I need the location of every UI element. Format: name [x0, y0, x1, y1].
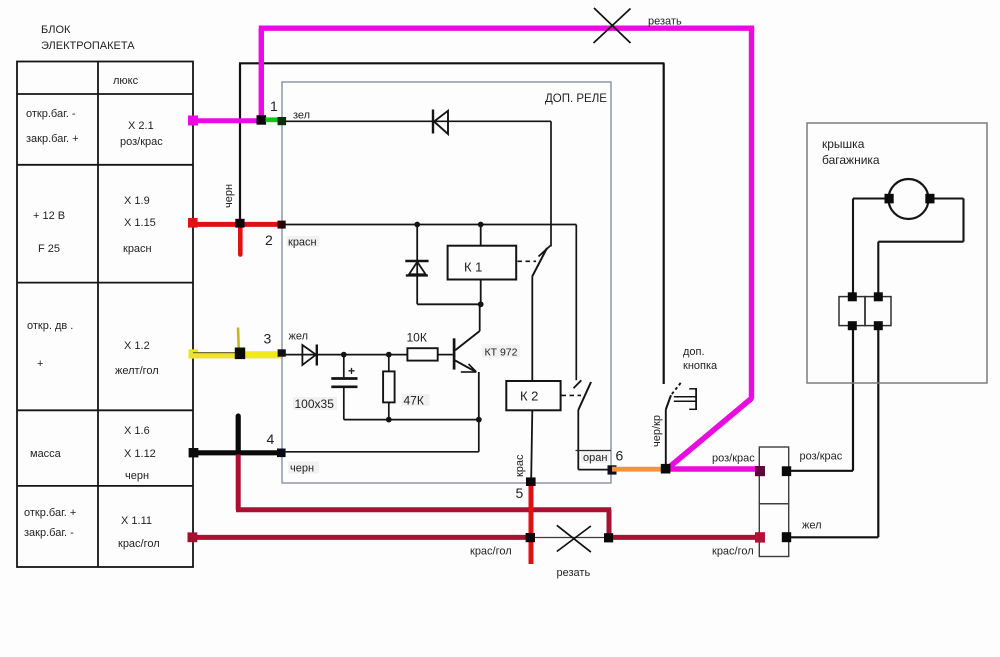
- wire роз/крас magenta diagonal and run to connector: [666, 399, 760, 469]
- label жел right: [802, 520, 822, 532]
- label роз/крас right: [800, 451, 843, 463]
- доп. кнопка switch: [666, 383, 696, 465]
- label крас/гол right: [712, 546, 754, 558]
- svg-text:крас/гол: крас/гол: [470, 546, 512, 558]
- svg-text:+: +: [37, 358, 43, 370]
- svg-text:роз/крас: роз/крас: [712, 453, 755, 465]
- wire крас/гол dark red to connector: [613, 535, 760, 540]
- svg-text:ЭЛЕКТРОПАКЕТА: ЭЛЕКТРОПАКЕТА: [41, 40, 135, 52]
- wire крас/гол dark red from блок row5: [188, 532, 528, 542]
- table row 1 откр.баг/закр.баг X 2.1 роз/крас: [26, 108, 163, 148]
- svg-text:4: 4: [267, 431, 275, 447]
- wire роз/крас magenta from блок row1: [188, 116, 262, 126]
- label 100х35: [293, 397, 337, 411]
- svg-text:роз/крас: роз/крас: [800, 451, 843, 463]
- table header cell люкс: [113, 75, 139, 87]
- wire black connector to крышка (lower): [791, 330, 878, 537]
- svg-text:6: 6: [616, 448, 624, 464]
- wire желт/гол yellow from блок row3: [189, 328, 282, 359]
- wire красн red from блок row2: [188, 218, 282, 255]
- node 1 square at box edge: [270, 98, 310, 125]
- svg-text:100х35: 100х35: [295, 397, 335, 411]
- table row 2 +12В F25 красн: [33, 195, 156, 255]
- resistor R1 10К: [407, 331, 453, 361]
- svg-text:откр.баг. +: откр.баг. +: [24, 507, 76, 519]
- svg-text:черн: черн: [125, 470, 149, 482]
- svg-text:черн: черн: [223, 184, 235, 208]
- svg-text:3: 3: [264, 331, 272, 347]
- node 4 square at box edge: [267, 431, 320, 475]
- X1 pin top right: [874, 292, 883, 301]
- svg-text:люкс: люкс: [113, 75, 139, 87]
- pin крас/гол left bottom (dark red): [755, 532, 765, 542]
- wire черн vertical from node 2 up to top rail: [239, 63, 241, 224]
- motor M circle: [889, 179, 929, 219]
- wire зел inside box: [286, 121, 552, 246]
- thin cut wire between junction squares bottom: [533, 537, 605, 539]
- table row 4 масса черн: [30, 425, 156, 482]
- wire крас red stub below node 5: [529, 484, 534, 564]
- diode VD1 on зел wire: [433, 110, 448, 135]
- svg-text:10К: 10К: [407, 331, 427, 345]
- svg-text:1: 1: [270, 98, 278, 114]
- capacitor C1 100х35: [331, 355, 357, 420]
- label черн vertical: [223, 184, 235, 208]
- svg-text:откр.баг. -: откр.баг. -: [26, 108, 76, 120]
- svg-text:чер/кр: чер/кр: [651, 415, 663, 447]
- cut mark X on top magenta wire: [594, 8, 631, 43]
- title БЛОК ЭЛЕКТРОПАКЕТА: [41, 24, 135, 52]
- table блок электропакета frame: [17, 62, 193, 568]
- node 3 square at box edge: [264, 331, 309, 357]
- wire зел green stub node 1: [266, 117, 279, 122]
- label роз/крас at connector left: [712, 453, 755, 465]
- wire черн ground rail inside box: [286, 420, 479, 452]
- label резать bottom: [557, 567, 591, 579]
- svg-text:+: +: [348, 364, 355, 378]
- X1 pin bottom right: [874, 321, 883, 330]
- transistor VT1 КТ 972: [454, 304, 480, 419]
- ground link rail under cap/resistor: [344, 419, 479, 421]
- pin right top black: [782, 466, 791, 476]
- svg-text:+ 12 В: + 12 В: [33, 210, 65, 222]
- wire black connector to крышка (upper): [791, 330, 853, 471]
- svg-text:F 25: F 25: [38, 243, 60, 255]
- label КТ 972: [482, 345, 520, 359]
- svg-text:крас/гол: крас/гол: [118, 538, 160, 550]
- svg-text:масса: масса: [30, 448, 62, 460]
- resistor R2 47К: [383, 355, 429, 420]
- svg-text:крас: крас: [514, 454, 526, 477]
- K1 dashed link: [518, 260, 537, 262]
- diode VD3: [302, 345, 316, 366]
- svg-text:Х 2.1: Х 2.1: [128, 120, 154, 132]
- junction square кнопка/оран/magenta: [661, 464, 671, 474]
- table row 5 откр.баг закр.баг крас/гол: [24, 507, 160, 550]
- terminal square масса at блок: [189, 448, 199, 457]
- label крас/гол left: [470, 546, 512, 558]
- relay K2 coil box: [506, 381, 560, 478]
- wire крас/гол dark red from node 4 down and across to node-5 corner: [236, 455, 611, 536]
- svg-text:47К: 47К: [404, 394, 424, 408]
- svg-text:закр.баг. +: закр.баг. +: [26, 133, 79, 145]
- wire from node 3 to diode VD3: [286, 354, 344, 356]
- svg-text:крас/гол: крас/гол: [712, 546, 754, 558]
- доп. реле box: [282, 82, 611, 483]
- junction dot emitter bottom: [476, 417, 482, 423]
- svg-text:резать: резать: [557, 567, 591, 579]
- wire оран orange node6 to кнопка junction: [612, 467, 665, 472]
- wire черн top rail to доп.кнопка: [239, 63, 664, 384]
- wire motor right around to connector: [878, 199, 963, 293]
- svg-text:резать: резать: [648, 16, 682, 28]
- junction square black on красн at черн crossing: [235, 219, 244, 228]
- wire +12В rail inside box: [286, 225, 577, 381]
- svg-text:ДОП. РЕЛЕ: ДОП. РЕЛЕ: [545, 93, 607, 105]
- svg-text:жел: жел: [802, 520, 822, 532]
- svg-text:БЛОК: БЛОК: [41, 24, 71, 36]
- X1 pin top left: [848, 292, 857, 301]
- svg-text:Х 1.9: Х 1.9: [124, 195, 150, 207]
- K1 switch contact: [532, 246, 550, 382]
- connector X2 body (two stacked cells): [759, 447, 788, 557]
- K2 switch contact: [574, 380, 609, 469]
- diode VD2 parallel to K1 coil: [405, 225, 480, 305]
- motor terminal left: [885, 194, 894, 204]
- connector X1 in крышка (two cells side by side): [839, 297, 891, 326]
- node 6 square right edge: [576, 448, 624, 475]
- svg-text:К 2: К 2: [520, 389, 538, 404]
- доп. кнопка labels: [683, 346, 718, 372]
- pin роз/крас left top (magenta): [755, 466, 765, 476]
- svg-text:доп.: доп.: [683, 346, 705, 358]
- svg-text:2: 2: [265, 232, 273, 248]
- wire роз/крас magenta riser and top run: [259, 28, 754, 398]
- junction square black on желт at черн crossing: [235, 348, 245, 360]
- svg-text:желт/гол: желт/гол: [115, 365, 159, 377]
- svg-text:К 1: К 1: [464, 260, 482, 275]
- junction dot on rail at VD2: [414, 222, 420, 228]
- X1 pin bottom left: [848, 321, 857, 330]
- крышка багажника box: [807, 123, 987, 383]
- svg-text:откр. дв .: откр. дв .: [27, 320, 73, 332]
- svg-text:Х 1.6: Х 1.6: [124, 425, 150, 437]
- svg-text:крышка: крышка: [822, 137, 865, 151]
- svg-text:Х 1.11: Х 1.11: [121, 515, 152, 527]
- pin right bottom black: [782, 532, 791, 542]
- svg-text:оран: оран: [583, 452, 607, 464]
- svg-text:жел: жел: [289, 331, 309, 343]
- junction dot 47K bottom: [386, 417, 392, 423]
- junction square at крас crossing bottom: [526, 533, 535, 542]
- svg-text:красн: красн: [123, 243, 152, 255]
- wire масса black from блок row4: [193, 416, 281, 454]
- cut mark X on крас/гол wire: [557, 525, 591, 552]
- motor terminal right: [925, 194, 934, 204]
- svg-text:Х 1.12: Х 1.12: [124, 448, 156, 460]
- svg-text:Х 1.2: Х 1.2: [124, 340, 150, 352]
- node 2 square at box edge: [265, 221, 320, 249]
- junction dot at 47K top: [386, 352, 392, 358]
- svg-text:роз/крас: роз/крас: [120, 136, 163, 148]
- relay K1 coil box: [448, 225, 517, 308]
- node 5 square bottom edge: [514, 454, 536, 501]
- junction dot on rail at K1 coil: [478, 222, 484, 228]
- junction square right of cut section: [604, 533, 613, 542]
- table row 3 откр.дв + желт/гол: [27, 320, 159, 377]
- svg-text:черн: черн: [290, 463, 314, 475]
- svg-text:зел: зел: [293, 110, 310, 122]
- junction dot at capacitor top: [341, 352, 347, 358]
- K2 dashed link: [562, 394, 582, 396]
- svg-text:КТ 972: КТ 972: [485, 347, 518, 359]
- svg-text:красн: красн: [288, 237, 317, 249]
- svg-text:закр.баг. -: закр.баг. -: [24, 527, 74, 539]
- svg-text:5: 5: [516, 485, 524, 501]
- svg-text:Х 1.15: Х 1.15: [124, 217, 156, 229]
- junction node 1 square: [257, 115, 267, 125]
- svg-text:кнопка: кнопка: [683, 360, 718, 372]
- wire motor left to connector: [853, 199, 885, 293]
- wire base node to resistors: [344, 354, 408, 356]
- svg-text:багажника: багажника: [822, 153, 880, 167]
- label резать top: [648, 16, 682, 28]
